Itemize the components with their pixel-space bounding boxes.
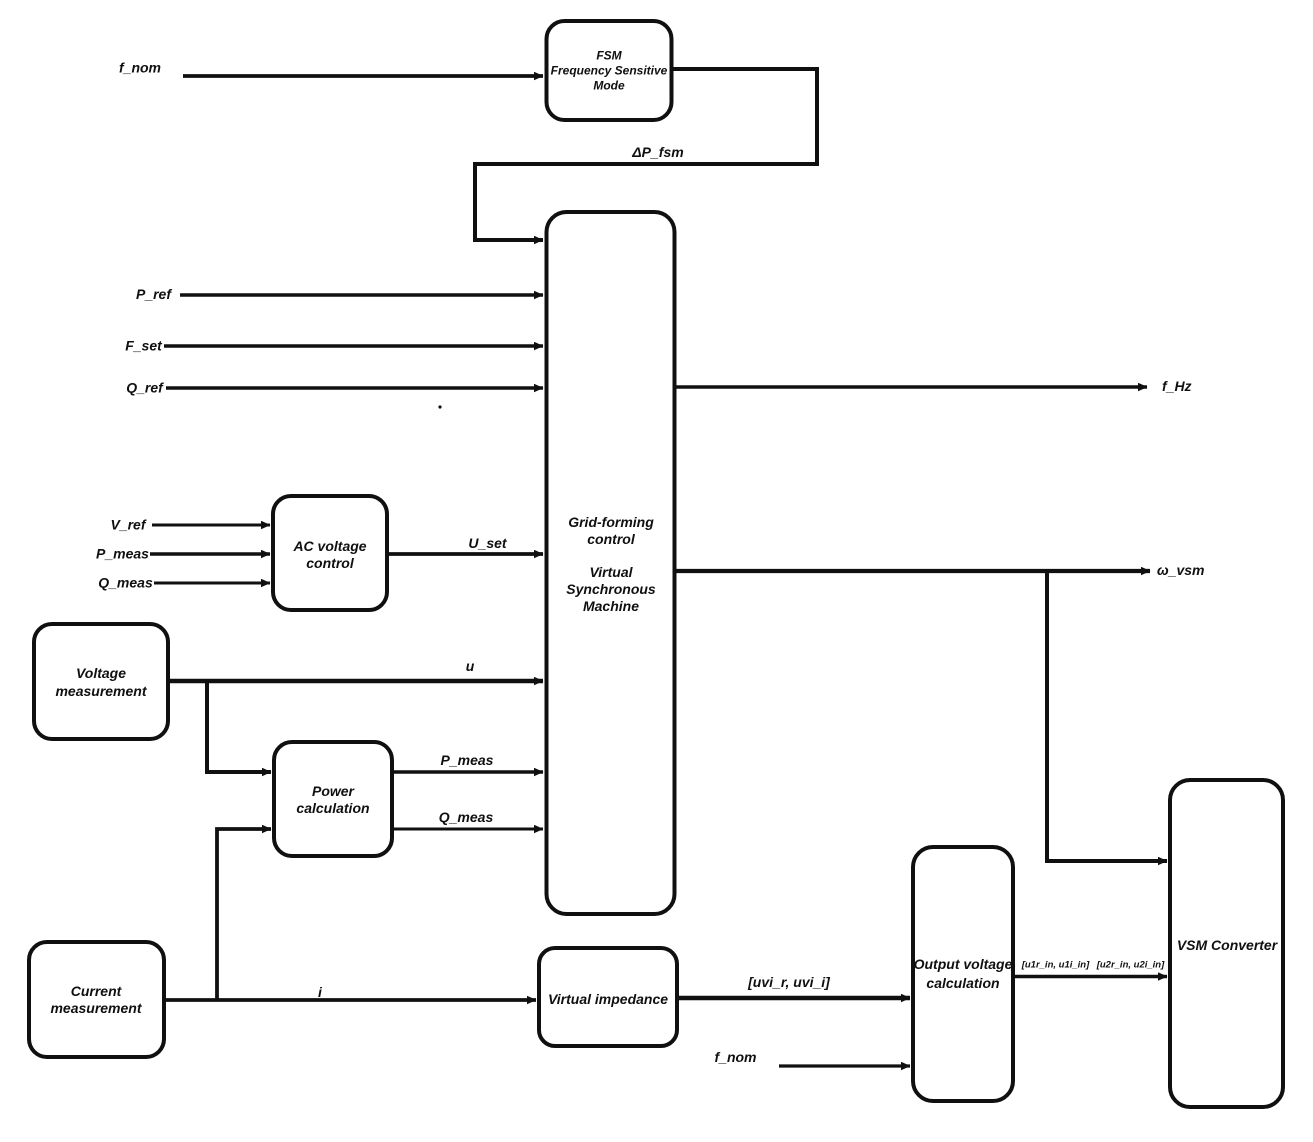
- wire u: [168, 679, 543, 683]
- block VSM Converter: [1170, 780, 1283, 1107]
- wire branch current to power calculation: [217, 829, 271, 1000]
- svg-text:Synchronous: Synchronous: [566, 581, 656, 597]
- svg-text:ΔP_fsm: ΔP_fsm: [631, 144, 683, 160]
- svg-text:P_meas: P_meas: [96, 546, 149, 562]
- wire P_ref: [180, 293, 543, 296]
- svg-text:f_Hz: f_Hz: [1162, 378, 1192, 394]
- wire i: [164, 998, 536, 1002]
- svg-text:Virtual: Virtual: [589, 564, 633, 580]
- block Output voltage calculation: [913, 847, 1013, 1101]
- svg-text:measurement: measurement: [50, 1000, 142, 1016]
- svg-text:Mode: Mode: [593, 79, 625, 93]
- svg-text:control: control: [306, 555, 355, 571]
- svg-text:measurement: measurement: [55, 683, 147, 699]
- block Grid-forming control / Virtual Synchronous Machine: [547, 212, 675, 914]
- wire F_set: [164, 344, 543, 347]
- svg-text:Grid-forming: Grid-forming: [568, 514, 654, 530]
- wire P_meas input: [150, 552, 270, 555]
- wire omega vsm output: [674, 569, 1150, 573]
- svg-text:control: control: [587, 531, 636, 547]
- block Voltage measurement: [34, 624, 168, 739]
- wire Q_ref: [166, 386, 543, 389]
- wire output voltage to VSM converter: [1013, 975, 1167, 978]
- block FSM Frequency Sensitive Mode: [547, 21, 672, 120]
- svg-text:calculation: calculation: [926, 975, 999, 991]
- svg-text:Machine: Machine: [583, 598, 639, 614]
- svg-text:F_set: F_set: [125, 338, 163, 354]
- block Power calculation: [274, 742, 392, 856]
- svg-text:Current: Current: [71, 983, 123, 999]
- svg-text:VSM Converter: VSM Converter: [1177, 937, 1279, 953]
- wire P_meas output: [392, 770, 543, 773]
- svg-text:Power: Power: [312, 783, 356, 799]
- wire U_set: [387, 552, 543, 556]
- svg-text:Virtual impedance: Virtual impedance: [548, 991, 668, 1007]
- svg-text:f_nom: f_nom: [119, 60, 161, 76]
- svg-text:[uvi_r, uvi_i]: [uvi_r, uvi_i]: [747, 974, 831, 990]
- svg-text:[u1r_in, u1i_in]: [u1r_in, u1i_in]: [1021, 960, 1090, 971]
- svg-text:[u2r_in, u2i_in]: [u2r_in, u2i_in]: [1096, 960, 1165, 971]
- svg-text:Voltage: Voltage: [76, 665, 126, 681]
- wire delta P fsm from FSM to Grid-forming control: [475, 69, 817, 240]
- svg-text:P_ref: P_ref: [136, 286, 172, 302]
- wire branch voltage to power calculation: [207, 681, 271, 772]
- block Current measurement: [29, 942, 164, 1057]
- block AC voltage control: [273, 496, 387, 610]
- wire Q_meas input: [154, 582, 270, 585]
- svg-text:V_ref: V_ref: [110, 517, 146, 533]
- svg-text:AC voltage: AC voltage: [292, 538, 366, 554]
- stray dot: [438, 405, 441, 408]
- svg-text:Q_meas: Q_meas: [98, 575, 153, 591]
- wire omega branch to VSM converter: [1047, 571, 1167, 861]
- svg-text:u: u: [466, 658, 475, 674]
- svg-text:Q_ref: Q_ref: [126, 380, 164, 396]
- wire f_Hz output: [674, 385, 1147, 388]
- svg-text:P_meas: P_meas: [441, 752, 494, 768]
- wire uvi from virtual impedance: [677, 996, 910, 1001]
- svg-text:calculation: calculation: [296, 800, 369, 816]
- block Virtual impedance: [539, 948, 677, 1046]
- svg-text:Output voltage: Output voltage: [914, 956, 1013, 972]
- wire f_nom to FSM: [183, 74, 543, 78]
- svg-text:Frequency Sensitive: Frequency Sensitive: [551, 64, 668, 78]
- svg-text:ω_vsm: ω_vsm: [1157, 562, 1205, 578]
- wire f_nom bottom: [779, 1064, 910, 1067]
- svg-text:FSM: FSM: [596, 49, 622, 63]
- wire Q_meas output: [392, 828, 543, 831]
- svg-text:Q_meas: Q_meas: [439, 809, 494, 825]
- svg-text:U_set: U_set: [468, 535, 507, 551]
- wire V_ref: [152, 524, 270, 527]
- svg-text:f_nom: f_nom: [715, 1049, 757, 1065]
